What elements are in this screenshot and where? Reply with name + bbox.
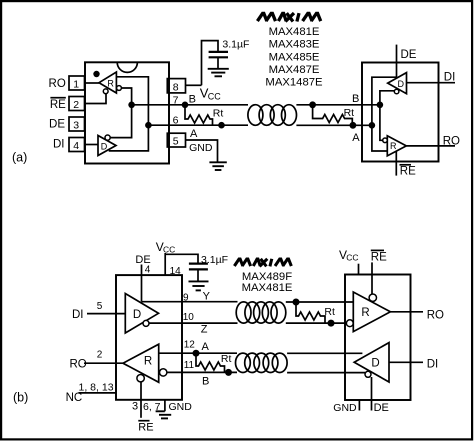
svg-text:RO: RO [443,135,460,147]
wire RO output (b right) [390,311,423,313]
svg-text:DI: DI [72,309,84,321]
remote transceiver box (a right) [362,63,439,162]
svg-text:CC: CC [208,92,221,102]
package notch [117,62,137,72]
overline of RE [50,97,65,99]
node A junction inside chip [145,122,152,129]
svg-text:D: D [371,357,379,369]
node A-right junction dot [350,122,357,129]
svg-text:R: R [390,141,397,151]
svg-text:MAX1487E: MAX1487E [265,77,323,89]
wire GND lead (b left) [164,400,166,412]
wire A line right of cable [296,124,372,126]
wire GND lead (b right) [358,400,360,411]
svg-text:10: 10 [183,312,195,323]
svg-text:3: 3 [73,120,79,132]
svg-text:RE: RE [50,99,66,111]
wire DI input (b left) [87,313,125,315]
wire R1 top input to A net [109,77,149,151]
wire B line (b) [167,371,237,373]
wire B line right of cable [287,372,365,374]
driver D2 (a right) [388,73,407,94]
remote transceiver box (b right) [345,275,411,401]
wire RO output (a right) [406,145,455,147]
resistor Rt (left termination, circuit a) [185,105,212,125]
MAXIM logo (top) [257,13,320,21]
ground symbol (b left) [156,411,172,418]
wire DE lead (a right) [396,45,398,78]
svg-text:4: 4 [73,140,79,152]
capacitor C2 3.1uF [189,264,208,281]
pin 3 box [69,117,85,131]
R1 enable bubble [103,89,108,94]
svg-text:9: 9 [183,292,189,303]
resistor Rt (left termination, circuit b) [196,353,224,372]
receiver R3 (b left) [123,344,159,382]
wire DI input (a right) [407,82,456,84]
svg-text:GND: GND [169,401,193,413]
wire Y line right of cable [286,301,354,303]
svg-text:DE: DE [374,402,389,414]
svg-text:8: 8 [173,81,179,93]
wire D2 bubble to B node [380,91,394,141]
R3 enable bubble [137,375,144,382]
svg-text:GND: GND [333,402,357,414]
D2 output bubble [394,89,399,94]
wire DI input (b right) [389,361,423,363]
svg-text:11: 11 [184,360,195,371]
pin 2 box [69,97,85,111]
svg-text:5: 5 [97,301,103,312]
wire NC pins [79,392,117,394]
svg-text:D: D [397,79,404,89]
MAX489 chip box (b left) [116,275,182,400]
svg-text:RE: RE [138,422,153,434]
svg-text:D: D [101,142,108,152]
overline of RE (a right) [400,164,412,166]
receiver R2 (a right) [387,136,406,156]
svg-text:RE: RE [400,166,416,178]
svg-text:2: 2 [73,99,79,111]
pin 1 box [69,76,85,90]
R2 input bubble (B) [383,138,388,143]
svg-text:Z: Z [201,323,208,335]
node A junction dot (b left) [193,350,200,357]
pin 8 box [167,79,185,93]
twisted pair cable Y/Z (b) [236,302,286,323]
driver D1 (left chip) [98,136,116,156]
part list (a) [265,26,323,89]
svg-text:RE: RE [371,251,387,263]
svg-text:Rt: Rt [344,107,355,119]
svg-text:2: 2 [97,350,103,361]
R4 input bubble (Z) [346,320,353,327]
svg-text:B: B [189,94,196,106]
wire DE lead (b right) [371,377,373,411]
pin 5 box [167,133,185,147]
wire Z line right of cable [286,322,347,324]
svg-text:A: A [190,128,198,140]
wire RO output (b left) [84,362,123,364]
R1 input bubble (B) [117,86,122,91]
svg-text:MAX481E: MAX481E [269,26,320,38]
svg-text:1: 1 [73,79,79,91]
wire R1 bubble to B net [110,88,131,138]
svg-text:DI: DI [53,139,65,151]
svg-text:3.1µF: 3.1µF [201,254,228,266]
D1 output bubble (B) [105,135,110,140]
wire pin4 to D1 input [85,144,99,146]
svg-text:Y: Y [203,291,211,303]
twisted pair cable A/B (b) [236,353,288,372]
label Vcc [200,86,221,102]
svg-text:CC: CC [346,253,358,263]
R3 input bubble (B) [160,369,167,376]
resistor Rt (right termination, circuit a) [313,105,353,126]
svg-text:MAX481E: MAX481E [242,282,293,294]
wire Vcc lead (b right) [358,264,360,275]
wire RE lead (b right) [371,262,373,294]
node Y junction dot (b right) [293,299,300,306]
svg-text:D: D [133,309,141,321]
wire pin8 to Vcc [186,84,202,86]
svg-text:NC: NC [66,392,83,404]
driver D3 (b left) [125,294,158,334]
wire Vcc lead pin14 [164,253,166,275]
label Vcc (b right) [339,248,359,263]
svg-text:DE: DE [401,49,417,61]
svg-text:3: 3 [132,401,138,413]
wire Vcc branch to capacitor [165,254,198,262]
wire pin6 A line [148,124,248,126]
pin-1 marker dot [93,71,99,77]
svg-text:DI: DI [444,72,456,84]
R4 enable bubble [369,294,376,301]
svg-text:14: 14 [170,266,182,277]
node B junction dot (b left) [225,369,232,376]
node B junction (inside right box) [377,102,384,109]
svg-text:MAX483E: MAX483E [269,39,320,51]
wire Z output [149,322,238,324]
wire Vcc rail up to capacitor [202,41,219,86]
svg-text:B: B [202,376,209,388]
svg-text:A: A [202,341,210,353]
wire A line (b) [159,352,237,354]
svg-text:R: R [361,307,369,319]
svg-text:MAX487E: MAX487E [269,64,320,76]
wire A line right of cable [287,352,362,354]
svg-text:A: A [352,132,360,144]
wire DE lead (b left) [141,265,143,302]
svg-text:B: B [352,93,359,105]
D4 input bubble (B) [365,371,371,377]
ground symbol pin5 [209,162,226,170]
wire B line right of cable [296,104,380,106]
node A-left junction dot [218,122,225,129]
wire pin5 to ground [186,140,218,162]
D3 output bubble (Z) [143,320,149,326]
overline of RE (b right) [371,249,384,251]
wire Y output [142,301,238,303]
wire pin2 to R1 enable bubble [85,94,107,104]
node B-left junction dot [182,102,189,109]
svg-text:(a): (a) [12,151,27,165]
svg-text:Rt: Rt [324,306,335,318]
wire RE lead (a right) [395,151,397,175]
svg-text:DI: DI [427,359,439,371]
svg-text:RO: RO [49,78,66,90]
pin 4 box [69,138,85,152]
part list (b) [242,271,293,294]
svg-text:GND: GND [189,142,213,154]
ground symbol for C1 [208,69,229,77]
svg-text:RO: RO [70,358,87,370]
svg-text:R: R [144,356,152,368]
svg-text:RO: RO [427,310,444,322]
node A junction (inside right box) [369,122,376,129]
ground symbol for C2 [189,281,209,290]
svg-text:MAX485E: MAX485E [269,51,320,63]
svg-text:Rt: Rt [221,353,232,365]
svg-text:DE: DE [49,119,65,131]
receiver R1 (left chip) [99,72,116,93]
wire RE lead (b left) [140,382,142,418]
node Z junction dot (b right) [328,320,335,327]
driver D4 (b right) [354,343,389,382]
svg-text:5: 5 [173,136,179,148]
resistor Rt (right termination, circuit b) [296,302,325,323]
overline of RE (b left) [138,420,149,422]
twisted pair cable (a) [248,105,297,126]
wire A branch to driver top edge [372,77,397,151]
receiver R4 (b right) [353,292,390,332]
svg-text:1, 8, 13: 1, 8, 13 [79,381,114,393]
node B junction inside chip [128,102,135,109]
wire pin7 B line [132,104,248,106]
svg-text:R: R [107,79,114,89]
svg-text:(b): (b) [13,391,28,405]
capacitor C1 3.1uF [209,52,228,69]
MAXIM logo (b) [234,259,291,267]
svg-text:Rt: Rt [213,108,224,120]
node B-right junction dot [309,101,316,108]
svg-text:12: 12 [184,340,196,351]
IC package U1 (MAX481E 8-pin DIP) [85,62,169,163]
svg-text:4: 4 [145,265,151,276]
wire pin1 to R1 output [85,82,100,84]
label Vcc (b left) [156,240,176,255]
svg-text:3.1µF: 3.1µF [222,39,249,51]
